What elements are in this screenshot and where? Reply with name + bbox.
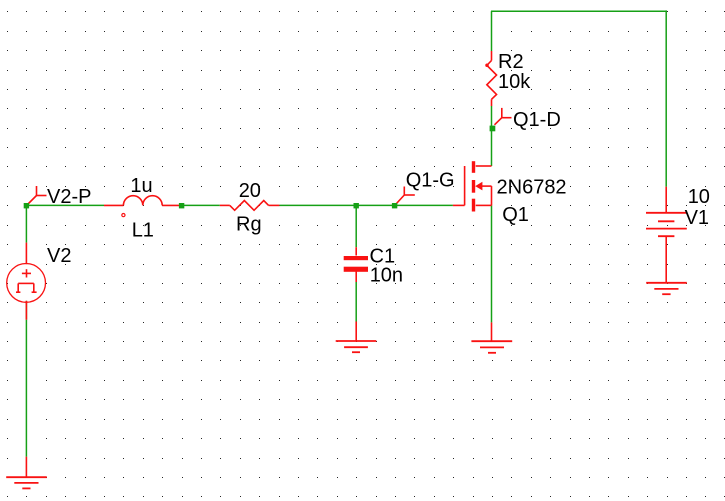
svg-text:Q1-D: Q1-D [513, 109, 561, 131]
svg-text:2N6782: 2N6782 [497, 177, 567, 199]
svg-text:Q1: Q1 [502, 204, 529, 226]
svg-text:20: 20 [239, 180, 261, 202]
svg-text:Rg: Rg [236, 214, 262, 236]
svg-text:V2-P: V2-P [47, 186, 91, 208]
svg-text:V2: V2 [47, 245, 71, 267]
svg-text:Q1-G: Q1-G [406, 170, 455, 192]
svg-text:V1: V1 [685, 207, 709, 229]
svg-text:10n: 10n [370, 265, 403, 287]
svg-text:L1: L1 [132, 219, 154, 241]
svg-text:10k: 10k [498, 71, 531, 93]
svg-text:1u: 1u [130, 175, 152, 197]
svg-text:R2: R2 [498, 51, 524, 73]
svg-text:10: 10 [688, 186, 710, 208]
